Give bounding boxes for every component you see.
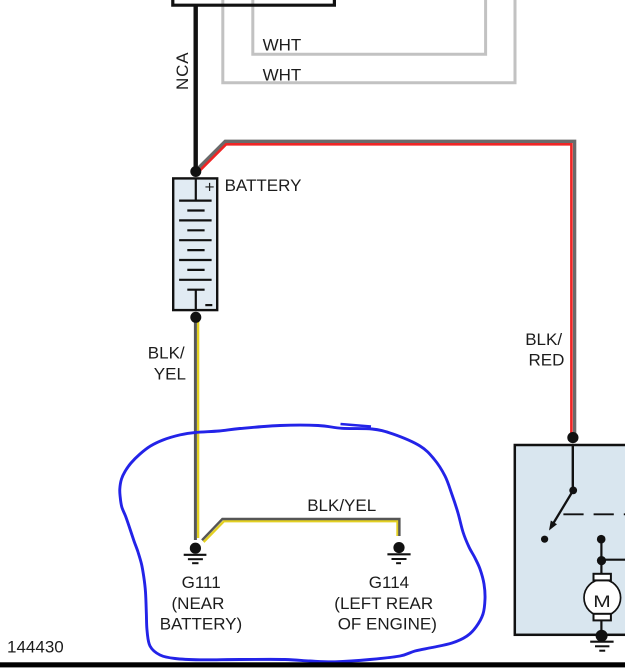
svg-text:(LEFT REAR: (LEFT REAR xyxy=(334,594,433,613)
svg-text:G111: G111 xyxy=(182,573,221,592)
svg-text:M: M xyxy=(593,592,611,611)
svg-text:(NEAR: (NEAR xyxy=(172,594,225,613)
svg-text:BATTERY): BATTERY) xyxy=(160,615,243,634)
svg-text:OF ENGINE): OF ENGINE) xyxy=(338,615,437,634)
svg-text:WHT: WHT xyxy=(263,66,302,85)
svg-text:BATTERY: BATTERY xyxy=(225,176,302,195)
svg-text:RED: RED xyxy=(529,351,565,370)
svg-text:WHT: WHT xyxy=(263,35,302,54)
svg-text:YEL: YEL xyxy=(154,365,186,384)
svg-text:BLK/: BLK/ xyxy=(148,343,185,362)
svg-text:NCA: NCA xyxy=(173,52,192,90)
svg-text:+: + xyxy=(205,178,215,197)
svg-text:144430: 144430 xyxy=(7,638,64,657)
svg-text:G114: G114 xyxy=(369,573,409,592)
svg-text:BLK/: BLK/ xyxy=(525,330,562,349)
svg-text:BLK/YEL: BLK/YEL xyxy=(307,496,376,515)
